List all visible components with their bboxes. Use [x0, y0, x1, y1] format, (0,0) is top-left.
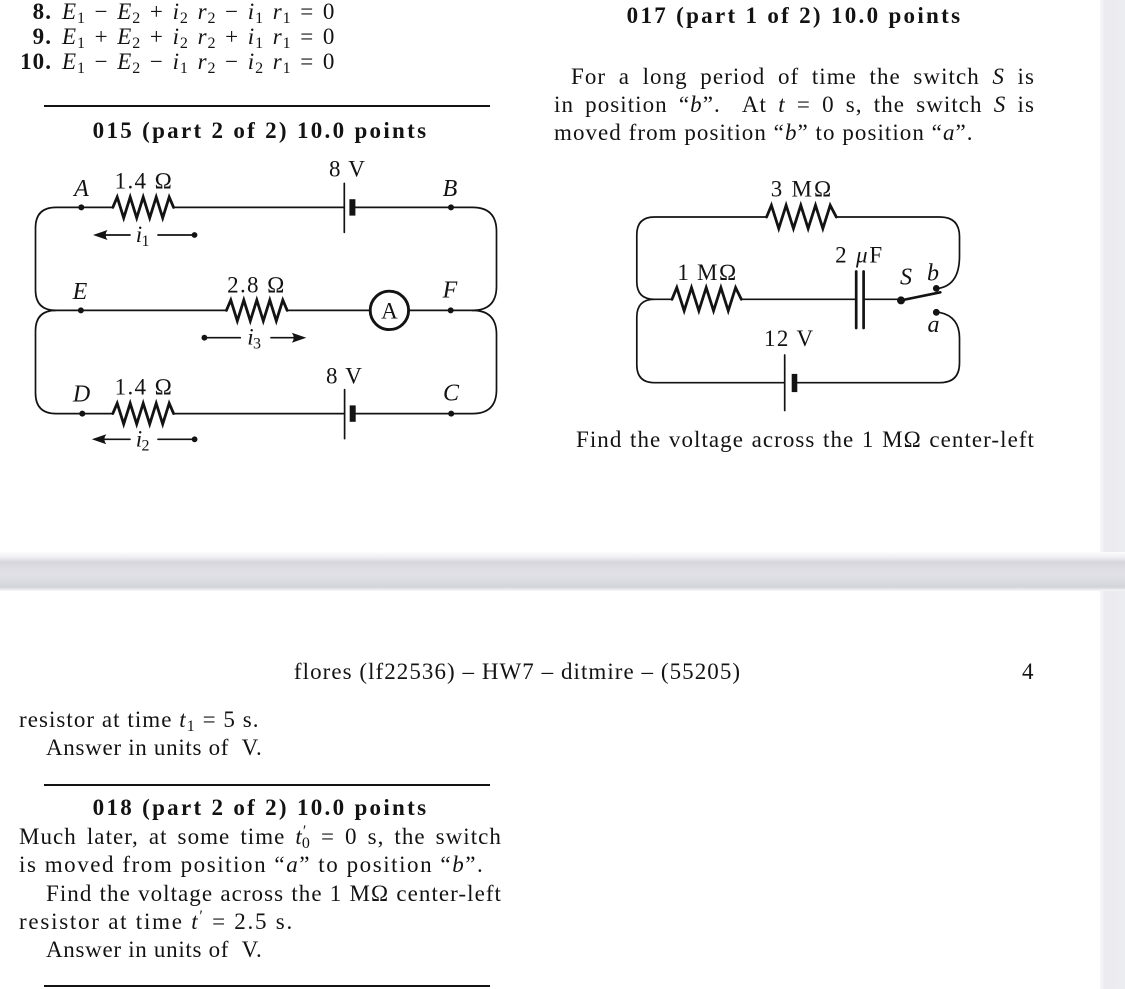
svg-text:3: 3: [253, 336, 261, 353]
contact a: [933, 309, 940, 316]
svg-text:1: 1: [142, 233, 150, 250]
label 1 Mohm: [677, 260, 737, 285]
label 2 uF: [835, 243, 884, 268]
node D: [79, 411, 85, 417]
page 2: [0, 591, 1100, 989]
wire: middle rail between capacitor and switch pivot: [864, 298, 897, 300]
label node C: [443, 381, 460, 407]
switch S lever: [901, 292, 940, 300]
resistor 1.4 ohm top: [113, 197, 174, 218]
svg-text:2 μF: 2 μF: [835, 243, 884, 268]
wire: bottom rail right + lower right corner + hook to contact a: [797, 312, 959, 382]
svg-text:b: b: [927, 260, 939, 286]
right gray strip: [1100, 0, 1125, 989]
wire: middle rail right segment (F node to corner): [409, 309, 473, 311]
current arrow i2: [92, 426, 198, 454]
label b: [927, 260, 939, 286]
svg-text:E: E: [72, 279, 88, 305]
wire: top rail right + upper right corner + hook to contact b: [836, 217, 959, 288]
svg-text:8 V: 8 V: [326, 364, 363, 389]
wire: left side of bottom loop: [637, 299, 785, 382]
label 2.8 ohm: [227, 273, 286, 298]
capacitor 2 uF: [856, 272, 863, 329]
wire: top rail left + left side of top loop + middle rail left stub: [637, 217, 767, 299]
label node B: [443, 176, 458, 202]
wire: bottom rail right + right side of bottom loop: [356, 310, 497, 413]
label node E: [72, 279, 88, 305]
wire: middle rail between resistor and ammeter: [287, 309, 370, 311]
label 12 V: [764, 326, 815, 351]
current arrow i1: [93, 222, 197, 250]
svg-text:D: D: [72, 382, 90, 408]
svg-text:12 V: 12 V: [764, 326, 815, 351]
wire: top rail between resistor and battery: [174, 206, 345, 208]
resistor 2.8 ohm middle: [226, 300, 287, 321]
wire: top rail right + right side of top loop: [356, 207, 497, 310]
battery 8V bottom: [345, 390, 356, 439]
resistor 1 Mohm: [672, 288, 741, 311]
label a: [928, 312, 940, 338]
node E: [78, 307, 84, 313]
wire: left side of bottom loop: [36, 310, 113, 413]
svg-text:3 MΩ: 3 MΩ: [771, 176, 834, 201]
resistor 3 Mohm: [767, 205, 837, 228]
battery 12V: [785, 355, 798, 411]
svg-text:1.4 Ω: 1.4 Ω: [115, 169, 174, 194]
wire: bottom rail between resistor and battery: [174, 413, 345, 415]
contact b: [933, 285, 940, 292]
svg-text:8 V: 8 V: [329, 157, 366, 182]
node F: [448, 307, 454, 313]
label 8 V bottom: [326, 364, 363, 389]
page 1: [0, 0, 1100, 553]
wire: top rail left + left side of top loop + middle rail left: [36, 207, 227, 310]
label S: [900, 265, 912, 291]
svg-text:2.8 Ω: 2.8 Ω: [227, 273, 286, 298]
wire: middle rail between resistor and capacitor: [741, 298, 855, 300]
svg-text:B: B: [443, 176, 458, 202]
label 1.4 ohm bottom: [115, 375, 174, 400]
battery 8V top: [344, 183, 355, 232]
label 1.4 ohm top: [115, 169, 174, 194]
ammeter A: [370, 291, 408, 329]
label 3 Mohm: [771, 176, 834, 201]
resistor 1.4 ohm bottom: [113, 403, 174, 424]
label node D: [72, 382, 90, 408]
node A: [78, 204, 84, 210]
svg-text:a: a: [928, 312, 940, 338]
svg-text:F: F: [442, 278, 458, 304]
svg-text:2: 2: [142, 437, 150, 454]
svg-text:A: A: [72, 176, 89, 202]
svg-text:S: S: [900, 265, 912, 291]
inter-page gap: [0, 552, 1125, 591]
svg-text:1.4 Ω: 1.4 Ω: [115, 375, 174, 400]
label node A: [72, 176, 89, 202]
node B: [448, 204, 454, 210]
label node F: [442, 278, 458, 304]
svg-text:A: A: [381, 298, 398, 323]
svg-text:1 MΩ: 1 MΩ: [677, 260, 737, 285]
node C: [448, 411, 454, 417]
label 8 V top: [329, 157, 366, 182]
switch S pivot: [897, 296, 905, 304]
svg-text:C: C: [443, 381, 460, 407]
current arrow i3: [202, 325, 307, 353]
